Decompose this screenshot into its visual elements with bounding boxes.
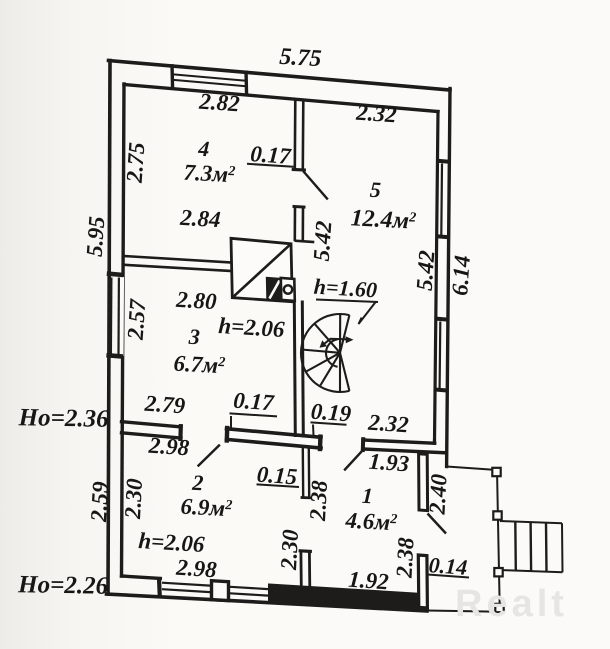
svg-text:2.32: 2.32: [355, 100, 398, 128]
svg-text:2: 2: [191, 470, 204, 496]
svg-text:1.93: 1.93: [368, 449, 410, 477]
svg-text:2.80: 2.80: [175, 287, 218, 315]
svg-text:0.14: 0.14: [428, 552, 468, 580]
svg-text:2.30: 2.30: [120, 477, 147, 520]
svg-text:2.38: 2.38: [305, 479, 332, 522]
svg-text:0.17: 0.17: [233, 388, 276, 416]
svg-text:2.84: 2.84: [179, 205, 222, 232]
svg-text:2.79: 2.79: [143, 391, 186, 419]
svg-text:2.32: 2.32: [367, 410, 410, 438]
svg-text:Realt: Realt: [455, 583, 568, 625]
svg-text:5.95: 5.95: [82, 216, 110, 258]
svg-text:h=2.06: h=2.06: [138, 528, 206, 557]
svg-text:12.4м2: 12.4м2: [350, 205, 417, 234]
svg-text:2.38: 2.38: [391, 536, 418, 579]
svg-text:5: 5: [369, 177, 381, 203]
svg-text:3: 3: [187, 324, 200, 350]
svg-text:2.30: 2.30: [276, 528, 303, 571]
svg-text:h=1.60: h=1.60: [313, 274, 378, 303]
svg-text:1: 1: [361, 483, 373, 509]
svg-text:4: 4: [197, 136, 210, 162]
svg-text:2.98: 2.98: [147, 433, 190, 461]
svg-text:5.42: 5.42: [412, 250, 440, 292]
svg-text:2.98: 2.98: [175, 555, 218, 583]
svg-text:6.14: 6.14: [447, 255, 475, 297]
svg-text:5.42: 5.42: [309, 220, 337, 262]
svg-text:2.82: 2.82: [198, 89, 241, 117]
svg-text:2.75: 2.75: [122, 142, 150, 185]
svg-text:0.19: 0.19: [310, 399, 352, 427]
svg-text:Но=2.36: Но=2.36: [17, 404, 109, 433]
svg-text:1.92: 1.92: [348, 567, 390, 595]
svg-text:0.17: 0.17: [250, 141, 293, 169]
svg-text:2.40: 2.40: [424, 473, 451, 516]
svg-text:2.59: 2.59: [86, 480, 113, 523]
svg-text:0.15: 0.15: [256, 462, 298, 490]
svg-text:2.57: 2.57: [123, 297, 151, 341]
svg-text:h=2.06: h=2.06: [218, 313, 286, 342]
svg-text:Но=2.26: Но=2.26: [17, 571, 109, 600]
svg-text:5.75: 5.75: [279, 44, 323, 73]
